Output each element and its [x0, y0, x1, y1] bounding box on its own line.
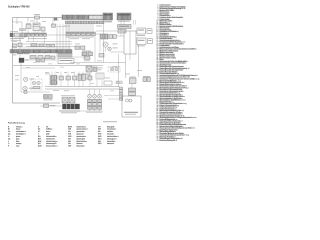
wire: right vertical bus x138 down [138, 45, 140, 78]
wire: y68 short [21, 67, 55, 69]
wires: descend from U boxes [27, 29, 29, 34]
ignition switch S2 cluster left [10, 33, 13, 37]
flasher relay K2 with connector [137, 28, 146, 34]
lower boxes x84-104 y73-79 [84, 74, 90, 79]
wires: lamp drops [89, 89, 91, 94]
left mid cluster: connector boxes [18, 43, 22, 47]
wire: drop x53 [52, 18, 54, 25]
tail lamp sockets: three columns [88, 94, 92, 98]
row of small boxes y76 [59, 76, 63, 80]
right chain: connector cells column x120 [119, 87, 123, 89]
box: regulator U1 [26, 25, 31, 29]
strip X1 lighter right segment [89, 15, 104, 19]
box: rectifier U2 [33, 23, 40, 31]
small marks above ignition cluster [20, 29, 23, 31]
wire: y44 horizontal [13, 43, 72, 45]
starter solenoid box (large, bottom right) [122, 96, 141, 117]
main harness bar (long hatched connector, segmented) [10, 50, 72, 54]
relay cluster lower-left [44, 95, 48, 99]
wire: y65.5 long horizontal [13, 65, 103, 67]
relay K1 (gray box with label) [118, 25, 132, 29]
CDI unit big outline box [124, 31, 136, 54]
wires: left mid verticals [19, 37, 21, 43]
wire: bottom frame horizontal [13, 102, 61, 104]
wire: into solenoid from pair [131, 84, 133, 89]
wire: vertical x95 [94, 36, 96, 63]
wire: y26.5 stub [57, 26, 66, 28]
connector column (dashed box with cells) [108, 67, 120, 73]
svg-text:78: 78 [156, 140, 158, 142]
pickup oval small [108, 47, 112, 51]
label box module [58, 59, 74, 64]
wire: left frame vertical [12, 18, 14, 104]
wire: CDI to K2 [136, 30, 137, 32]
wire: y52 into CDI [110, 51, 124, 53]
wire: y62.5 horizontal [45, 59, 57, 61]
svg-text:Ersatzsicherung 30 A: Ersatzsicherung 30 A [159, 139, 177, 142]
misc tiny labels [30, 20, 35, 23]
legend list (right column) [159, 4, 169, 5]
wire: cluster to right [27, 34, 67, 36]
wires: ticks above row y72-76 [51, 72, 53, 77]
wire: main feed top horizontal [13, 17, 63, 19]
ignition coil T1 bulb box [86, 66, 92, 72]
svg-text:braun-schwarz: braun-schwarz [46, 146, 58, 148]
svg-text:Schaltplan YFM 660: Schaltplan YFM 660 [8, 4, 30, 8]
small boxes right x88-95 y74-81 [88, 76, 92, 80]
wires: bus lines y86.5 and y89 [45, 86, 120, 88]
wires: ticks above harness bar [11, 46, 13, 50]
connector pair stacked (hatched) mid-bottom-left [50, 76, 57, 80]
extra faint label smudges [48, 63, 52, 66]
wires: around magneto [103, 20, 105, 32]
headlamp L2 (circle with X) [23, 86, 27, 90]
svg-text:weiss-rot: weiss-rot [107, 142, 115, 145]
wires: drops from strip X2 to switch row [66, 24, 68, 32]
wires: drops from row to bus [51, 80, 53, 87]
dark connector blob near top feed [54, 18, 57, 21]
wire: y46.5 horizontal [26, 46, 78, 48]
taller box pair x78 [78, 74, 81, 80]
switch assembly S1 handlebar (row of cells) [66, 32, 70, 36]
tiny boxes under U boxes (cell row) [27, 33, 30, 36]
wires: longer drops x57-69 going down to mid band [56, 24, 58, 50]
small box on left frame [13, 44, 16, 47]
wire: battery to pair [24, 59, 36, 61]
headlamp L1 (circle with X) [24, 77, 28, 81]
connector strip X1 main harness (hatched) [62, 15, 104, 20]
wire: CDI to K3 [136, 40, 137, 42]
wire: y106 horizontal [40, 105, 62, 107]
wire: y41.5 horizontal [26, 41, 72, 43]
horn relay K3 with connector [137, 38, 146, 45]
wire: y36 into CDI [116, 35, 124, 37]
box: fuse holder below K1 [118, 30, 126, 34]
svg-text:rosa: rosa [16, 146, 20, 148]
wire: vertical from CDI bottom [125, 54, 127, 78]
wire: main vertical x103 [103, 31, 105, 63]
svg-text:blau-weiss: blau-weiss [77, 146, 86, 148]
wire: vertical x118 long [118, 54, 120, 87]
box x104 y81 [104, 81, 112, 85]
caption under solenoid [103, 120, 117, 123]
wire: y99 horizontal [108, 98, 120, 100]
magneto M1 (oval with X) [103, 42, 108, 47]
twin squares x143 y77.5 [143, 78, 146, 82]
lamp group: twin bulbs (boxes with X) [62, 98, 68, 104]
wire: y31 feed to CDI [96, 30, 124, 32]
wire: main vertical x57 [56, 50, 58, 59]
box: small module right of U2 [41, 27, 45, 31]
colour-code table rows [7, 126, 10, 127]
small boxes row under bar left [30, 56, 36, 59]
svg-text:L/W: L/W [68, 146, 71, 148]
wire: corner drop x58 [57, 18, 59, 22]
box pair x130 y78 [130, 78, 137, 84]
fuse/starter chain column x128-136 [129, 88, 136, 91]
svg-text:Farb-Bedeutung: Farb-Bedeutung [8, 121, 26, 124]
wire: stub junctions top-left [27, 18, 29, 23]
battery G1 (dark) [19, 58, 24, 63]
fuse F1 30A main fuse [35, 16, 40, 19]
wire: bottom bus y111 [60, 110, 103, 112]
wire: switch row to right [95, 33, 100, 35]
wire: y57 stub [72, 56, 86, 58]
wire: drop x37 [36, 19, 38, 23]
pickup coil cluster left of CDI [100, 34, 108, 39]
segmented cell row below bar [58, 54, 72, 58]
wire: y92 horizontal [21, 91, 50, 93]
cluster above y54 right: boxes x75-86 [75, 46, 79, 49]
connector block X4 (hatched, top right) [117, 13, 131, 20]
connector strip X2 sub harness [66, 21, 105, 24]
connector block X3 (hatched, top right) [103, 13, 113, 20]
dark terminal block cluster [63, 104, 80, 109]
scattered terminal blobs mid-left [31, 44, 37, 47]
instrument cluster (dashed box with two lamps) [31, 79, 42, 90]
wires: X4 down stubs [120, 20, 122, 25]
pair boxes x36 y58 [36, 58, 40, 62]
wire: y95.5 horizontal to column [104, 95, 120, 97]
